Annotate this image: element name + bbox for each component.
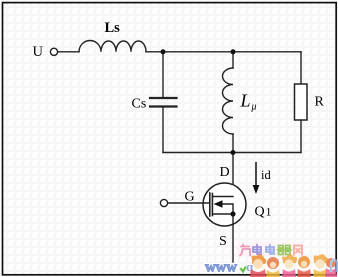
svg-text:id: id (261, 168, 271, 182)
svg-text:G: G (185, 190, 195, 205)
node dot top Cs junction (161, 49, 166, 54)
mosfet Q1 circle (203, 183, 246, 226)
mosfet source stub (214, 213, 234, 215)
inductor Lmu (223, 68, 233, 134)
wire Cs branch lower (162, 107, 164, 153)
resistor R body (295, 84, 308, 120)
watermark green tick (241, 267, 247, 272)
watermark mascots (250, 254, 337, 277)
watermark blue m bubble (331, 260, 337, 272)
mascot 4 (297, 256, 311, 277)
watermark line1: char wang (294, 246, 302, 256)
svg-text:R: R (315, 95, 325, 110)
wire gate (168, 202, 209, 204)
capacitor Cs plates (150, 98, 177, 107)
wire source (232, 214, 234, 262)
watermark halo backdrop (237, 242, 304, 257)
mascot 5 (313, 254, 328, 277)
watermark line1: char qi (278, 246, 292, 255)
terminal G circle (160, 199, 167, 206)
mascot 2 (266, 257, 280, 277)
mosfet channel bar (211, 194, 213, 216)
current arrow Id (253, 162, 260, 194)
wire top rail (146, 51, 301, 53)
wire U to Ls (58, 51, 79, 53)
svg-text:D: D (220, 165, 230, 180)
mosfet body stub (222, 204, 234, 214)
watermark line1: char dian 1 (253, 245, 262, 255)
svg-text:μ: μ (251, 102, 257, 113)
wire Lmu branch lower (232, 134, 234, 153)
terminal U circle (50, 48, 57, 55)
svg-text:www: www (205, 260, 237, 276)
watermark line1: char guang (240, 245, 302, 256)
svg-text:S: S (219, 234, 227, 249)
wire Lmu branch upper (232, 52, 234, 68)
wire bottom rail (163, 152, 301, 154)
mosfet gate bar (209, 193, 211, 216)
watermark line1: char dian 2 (266, 245, 275, 255)
inductor Ls (79, 41, 146, 52)
svg-text:Q: Q (255, 205, 265, 220)
node dot top Lmu junction (231, 49, 236, 54)
wire right branch down to resistor (300, 52, 302, 84)
mascot 1 (250, 254, 266, 277)
node dot source body junction (230, 211, 235, 216)
wire Cs branch upper (162, 52, 164, 98)
mascot 6 (325, 258, 337, 277)
wire drain (232, 153, 234, 197)
mosfet drain stub (214, 196, 234, 198)
wire resistor to bottom rail (300, 120, 302, 153)
node dot bottom drain junction (231, 150, 236, 155)
svg-text:Ls: Ls (105, 20, 121, 36)
mosfet body arrow (214, 200, 223, 208)
svg-text:U: U (33, 44, 44, 60)
svg-text:L: L (240, 91, 251, 111)
mascot 3 (282, 255, 297, 277)
svg-text:1: 1 (266, 205, 272, 219)
svg-text:Cs: Cs (132, 97, 147, 112)
